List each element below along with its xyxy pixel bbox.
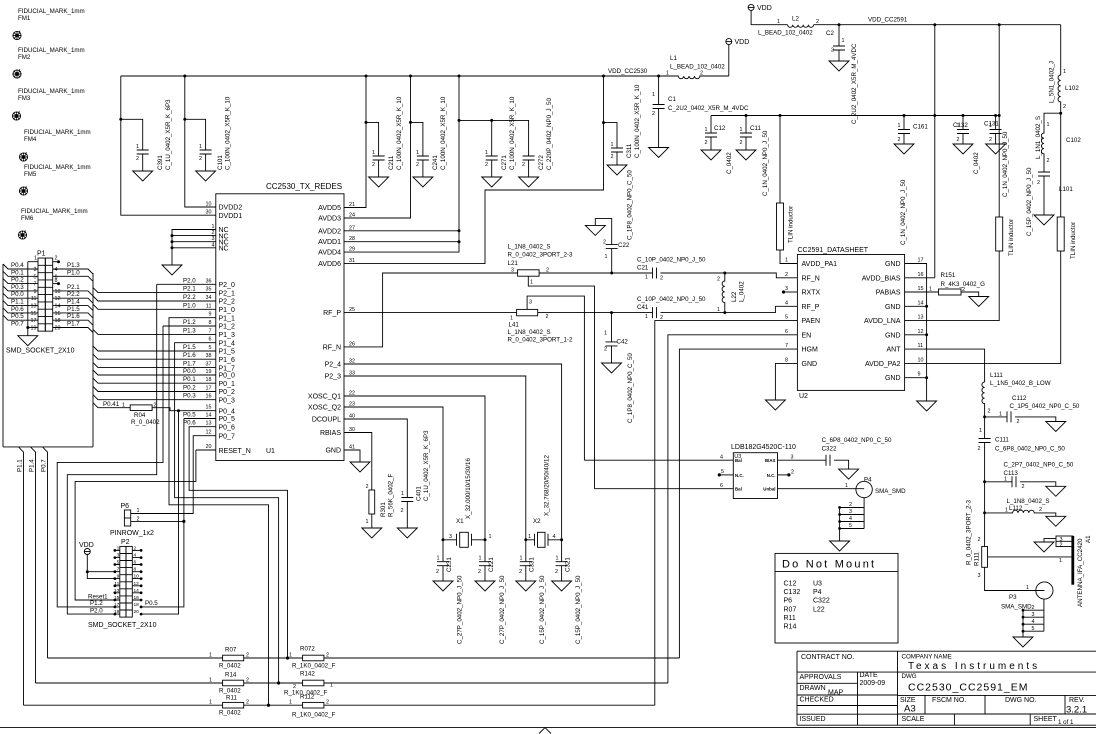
svg-text:C_15P_0402_NP0_J_50: C_15P_0402_NP0_J_50: [575, 575, 582, 644]
svg-text:P0.2: P0.2: [11, 277, 24, 284]
svg-text:P0_4: P0_4: [219, 408, 235, 415]
wire P1 pin9 P0.3: [3, 286, 38, 291]
wire P1 pin16 P1.5: [53, 313, 93, 318]
svg-text:18: 18: [55, 318, 61, 324]
svg-text:P2: P2: [121, 539, 130, 546]
svg-text:C321: C321: [565, 557, 572, 572]
ground C221: [475, 581, 495, 591]
svg-text:L22: L22: [731, 291, 738, 302]
svg-text:2: 2: [137, 516, 140, 522]
ground C241: [413, 177, 433, 187]
svg-text:2: 2: [326, 653, 329, 659]
svg-text:7: 7: [209, 328, 212, 334]
svg-text:P1_3: P1_3: [219, 332, 235, 339]
svg-text:C101: C101: [217, 155, 224, 170]
svg-text:FIDUCIAL_MARK_1mm: FIDUCIAL_MARK_1mm: [24, 129, 91, 136]
svg-text:R301: R301: [380, 502, 387, 517]
ground C11: [736, 150, 756, 160]
svg-text:C_2U2_0402_X5R_M_4VDC: C_2U2_0402_X5R_M_4VDC: [668, 105, 749, 112]
svg-text:1: 1: [604, 331, 607, 337]
svg-text:P4: P4: [864, 477, 872, 484]
svg-text:REV.: REV.: [1069, 697, 1085, 704]
svg-text:1: 1: [136, 144, 139, 150]
svg-text:6: 6: [209, 337, 212, 343]
svg-text:L_1N8_0402_S: L_1N8_0402_S: [508, 329, 551, 336]
resistor R151: [939, 289, 962, 295]
svg-text:P0.7: P0.7: [11, 321, 24, 328]
resistor R142: [303, 680, 324, 686]
svg-text:P1.7: P1.7: [183, 361, 196, 368]
svg-text:U1: U1: [266, 448, 275, 455]
svg-text:2: 2: [134, 545, 137, 551]
ground P4: [830, 541, 850, 551]
svg-text:4: 4: [553, 534, 556, 540]
svg-text:20: 20: [206, 444, 212, 450]
svg-text:10: 10: [55, 289, 61, 295]
wire R111 to P3: [985, 567, 1045, 590]
svg-text:CC2530_TX_REDES: CC2530_TX_REDES: [266, 182, 342, 191]
svg-text:RF_P: RF_P: [802, 304, 820, 311]
svg-text:1: 1: [556, 556, 559, 562]
capacitor C11: [745, 114, 748, 117]
svg-text:C21: C21: [637, 265, 649, 272]
svg-text:17: 17: [918, 258, 924, 264]
wire rail left drop to DVDD1: [121, 76, 216, 215]
svg-text:P1_7: P1_7: [219, 365, 235, 372]
svg-text:R_0402: R_0402: [219, 688, 241, 695]
svg-text:2: 2: [246, 700, 249, 706]
svg-text:1: 1: [979, 428, 982, 434]
ground C391: [133, 171, 153, 181]
svg-text:L22: L22: [813, 606, 825, 613]
svg-text:21: 21: [349, 202, 355, 208]
svg-text:P0.41: P0.41: [103, 401, 120, 408]
wire P1 pin11 P0.0: [3, 293, 38, 298]
wire P1 pin10 P2.1: [53, 291, 93, 296]
svg-text:C391: C391: [157, 155, 164, 170]
svg-text:A3: A3: [904, 704, 916, 715]
svg-text:P0.1: P0.1: [183, 376, 196, 383]
svg-text:3: 3: [849, 509, 852, 515]
fiducial FM6: [18, 230, 26, 239]
wire RF_P from U1 through L41: [344, 312, 517, 314]
svg-text:C22: C22: [618, 242, 630, 249]
svg-text:Texas Instruments: Texas Instruments: [908, 661, 1040, 672]
svg-text:1: 1: [740, 127, 743, 133]
svg-text:FSCM NO.: FSCM NO.: [932, 697, 966, 704]
bus entry U1 P1_5: [93, 346, 216, 351]
ground R151: [969, 297, 989, 307]
svg-text:R151: R151: [941, 272, 956, 279]
svg-text:2: 2: [957, 137, 960, 143]
svg-text:C161: C161: [913, 124, 928, 131]
title block frame: [797, 651, 1096, 725]
resistor R111: [984, 513, 986, 547]
svg-text:P1.4: P1.4: [67, 299, 80, 306]
capacitor C112: [985, 416, 1007, 418]
capacitor C21: [653, 268, 657, 279]
svg-text:2009-09: 2009-09: [860, 680, 886, 687]
svg-text:U3: U3: [813, 580, 822, 587]
svg-text:6: 6: [785, 329, 788, 335]
svg-text:P2_0: P2_0: [219, 282, 235, 289]
svg-text:1: 1: [898, 123, 901, 129]
svg-text:C231: C231: [446, 557, 453, 572]
svg-text:P1.0: P1.0: [183, 302, 196, 309]
svg-text:L111: L111: [990, 372, 1003, 379]
svg-text:P2_2: P2_2: [219, 299, 235, 306]
svg-text:2: 2: [246, 653, 249, 659]
svg-text:4: 4: [785, 300, 788, 306]
svg-text:37: 37: [206, 362, 212, 368]
wire P1 pin13 P1.1: [3, 301, 38, 306]
svg-text:GND: GND: [802, 361, 818, 368]
svg-text:N.C.: N.C.: [735, 473, 744, 478]
antenna A1 pin box: [1056, 536, 1073, 547]
capacitor C231: [442, 540, 444, 562]
capacitor C12: [710, 116, 712, 134]
connector P1 SMD_SOCKET_2X10 body: [38, 258, 45, 331]
svg-text:19: 19: [206, 369, 212, 375]
svg-text:3: 3: [785, 286, 788, 292]
svg-text:1: 1: [289, 653, 292, 659]
svg-text:N.C.: N.C.: [767, 473, 776, 478]
svg-text:Unbal: Unbal: [763, 487, 775, 492]
svg-text:1: 1: [209, 678, 212, 684]
svg-text:3: 3: [529, 300, 532, 306]
svg-text:GND: GND: [885, 261, 901, 268]
svg-text:10: 10: [206, 202, 212, 208]
inductor L101 branch: [1041, 113, 1060, 172]
wire U1 P0_6 to row1: [189, 427, 287, 658]
svg-text:4: 4: [720, 455, 723, 461]
ground C272: [519, 177, 539, 187]
svg-text:2: 2: [199, 156, 202, 162]
svg-text:P3: P3: [1009, 594, 1017, 601]
pin NC group wires: [172, 230, 216, 266]
svg-text:L41: L41: [509, 321, 520, 328]
svg-text:C271: C271: [501, 155, 508, 170]
svg-text:2: 2: [705, 140, 708, 146]
ground P3: [1013, 637, 1033, 647]
svg-text:BIAS: BIAS: [765, 458, 776, 463]
ground C101: [196, 171, 216, 181]
svg-text:C112: C112: [1012, 395, 1027, 402]
svg-text:C41: C41: [637, 304, 649, 311]
svg-text:P0.3: P0.3: [183, 393, 196, 400]
svg-text:P1.5: P1.5: [183, 344, 196, 351]
svg-text:1: 1: [1063, 69, 1066, 75]
fiducial FM1: [13, 31, 21, 40]
svg-text:2: 2: [740, 140, 743, 146]
svg-text:P0_5: P0_5: [219, 416, 235, 423]
resistor R14: [223, 680, 244, 686]
svg-text:P1.1: P1.1: [17, 459, 24, 472]
node R04 out: [177, 409, 180, 412]
svg-text:R_1K0_0402_F: R_1K0_0402_F: [292, 663, 336, 670]
svg-text:R07: R07: [784, 606, 797, 613]
svg-text:R_0_0402: R_0_0402: [131, 419, 160, 426]
fiducial FM5: [19, 186, 27, 195]
svg-text:2: 2: [978, 446, 981, 452]
capacitor C311: [611, 148, 623, 152]
ground A1: [1034, 542, 1054, 552]
bus entry U1 P1_0: [93, 304, 216, 309]
wire P1 pin20 P1.7: [53, 328, 93, 333]
svg-text:P6: P6: [121, 503, 130, 510]
svg-text:7: 7: [34, 282, 37, 288]
svg-text:8: 8: [55, 278, 58, 284]
svg-text:ANTENNA_IFA_CC2420: ANTENNA_IFA_CC2420: [1077, 538, 1084, 607]
ground NC pins: [162, 265, 182, 275]
svg-text:P0.2: P0.2: [183, 385, 196, 392]
svg-text:2: 2: [485, 162, 488, 168]
svg-text:1: 1: [137, 508, 140, 514]
capacitor C221: [484, 540, 486, 562]
svg-text:C_6P8_0402_NP0_C_50: C_6P8_0402_NP0_C_50: [822, 437, 892, 444]
wire L41 top stub to balun: [527, 296, 584, 460]
svg-text:C_100N_0402_X5R_K_10: C_100N_0402_X5R_K_10: [440, 96, 447, 170]
svg-text:4: 4: [1032, 619, 1035, 625]
svg-text:1 of 1: 1 of 1: [1058, 719, 1074, 726]
svg-text:2: 2: [1047, 158, 1050, 164]
capacitor C321: [561, 540, 563, 562]
wire EN: [668, 335, 798, 683]
svg-text:11: 11: [31, 296, 37, 302]
svg-text:1: 1: [117, 545, 120, 551]
svg-text:C_100N_0402_X5R_K_10: C_100N_0402_X5R_K_10: [225, 96, 232, 170]
svg-text:CONTRACT NO.: CONTRACT NO.: [801, 654, 854, 661]
wire VDD to L2: [751, 10, 788, 24]
svg-text:RF_N: RF_N: [323, 344, 341, 351]
inductor L41 (0-ohm 3port): [517, 309, 538, 315]
node rail-DVDD2: [183, 75, 186, 78]
inductor L22: [723, 272, 726, 275]
wire RF_N from U1 to L21 line: [344, 273, 518, 347]
fiducial FM2: [13, 69, 21, 78]
svg-text:P0.7: P0.7: [41, 459, 48, 472]
connector P6 PINROW_1x2 body: [124, 510, 130, 526]
svg-text:SHEET: SHEET: [1034, 716, 1058, 723]
pin balun 5 N.C. stub: [719, 474, 733, 476]
svg-text:2: 2: [831, 48, 834, 54]
ground C321: [552, 581, 572, 591]
svg-text:C_1P8_0402_NP0_C_50: C_1P8_0402_NP0_C_50: [627, 170, 634, 240]
wire PAEN: [655, 321, 798, 706]
svg-text:C12: C12: [714, 125, 726, 132]
svg-text:2: 2: [652, 111, 655, 117]
svg-text:P2.2: P2.2: [67, 291, 80, 298]
svg-text:SMA_SMD: SMA_SMD: [875, 488, 906, 495]
svg-text:NC: NC: [219, 246, 229, 253]
svg-text:P1.3: P1.3: [183, 327, 196, 334]
svg-text:SCALE: SCALE: [902, 716, 925, 723]
svg-text:C331: C331: [529, 557, 536, 572]
svg-text:L_1N8_0402_S: L_1N8_0402_S: [508, 243, 551, 250]
svg-text:2: 2: [791, 469, 794, 475]
svg-text:2: 2: [519, 569, 522, 575]
svg-text:2: 2: [55, 256, 58, 262]
wire antenna gnd pins: [1044, 539, 1056, 542]
svg-text:P0.5: P0.5: [145, 600, 158, 607]
inductor TLIN2: [998, 25, 1000, 217]
svg-text:XOSC_Q1: XOSC_Q1: [308, 394, 341, 401]
wire P1 pin14 P1.4: [53, 306, 93, 311]
svg-text:1: 1: [489, 534, 492, 540]
svg-text:C322: C322: [813, 598, 830, 605]
node C391 stub: [119, 118, 122, 121]
svg-text:1: 1: [605, 254, 608, 260]
IC U2 CC2591 outline: [797, 255, 904, 391]
svg-text:3: 3: [34, 267, 37, 273]
svg-text:2: 2: [522, 162, 525, 168]
svg-text:RXTX: RXTX: [802, 290, 821, 297]
svg-text:L_1N1_0402_S: L_1N1_0402_S: [1035, 116, 1042, 159]
power VDD symbol 1: [728, 45, 730, 76]
bus entry U1 P2_2: [93, 296, 216, 301]
wire AVDD_BIAS: [905, 277, 935, 279]
svg-text:17: 17: [206, 386, 212, 392]
svg-text:15: 15: [918, 286, 924, 292]
bus exit P1.4: [31, 447, 36, 683]
svg-text:P0_6: P0_6: [219, 424, 235, 431]
svg-text:FM5: FM5: [24, 171, 37, 178]
wire AVDD3 vertical: [344, 76, 411, 218]
node P6 pin2 junction: [182, 520, 185, 523]
svg-text:GND: GND: [885, 332, 901, 339]
svg-text:C211: C211: [388, 155, 395, 170]
inductor TLIN3: [1060, 113, 1062, 217]
svg-text:5: 5: [1032, 626, 1035, 632]
svg-text:13: 13: [206, 421, 212, 427]
svg-text:1: 1: [530, 280, 533, 286]
resistor R301: [369, 490, 375, 514]
svg-text:2: 2: [136, 156, 139, 162]
bus entry R04: [93, 403, 130, 408]
svg-text:2: 2: [212, 230, 215, 236]
svg-text:1: 1: [479, 556, 482, 562]
svg-text:8: 8: [785, 357, 788, 363]
svg-text:6: 6: [720, 483, 723, 489]
svg-text:P0.0: P0.0: [183, 368, 196, 375]
svg-text:10: 10: [134, 574, 140, 580]
svg-text:P2.0: P2.0: [183, 277, 196, 284]
svg-text:R_0_0402_3PORT_2-3: R_0_0402_3PORT_2-3: [508, 252, 573, 259]
svg-text:ANT: ANT: [887, 347, 902, 354]
wire ANT to L111: [905, 349, 985, 382]
connector P4 SMA: [856, 481, 872, 497]
svg-text:TLIN inductor: TLIN inductor: [1070, 222, 1077, 259]
svg-text:1: 1: [528, 534, 531, 540]
ground C271: [482, 177, 502, 187]
svg-text:18: 18: [206, 377, 212, 383]
svg-text:C_2P7_0402_NP0_C_50: C_2P7_0402_NP0_C_50: [1004, 462, 1074, 469]
wire L21 pin1 stub to balun: [528, 276, 594, 489]
wire L41 to C41: [538, 312, 652, 314]
svg-text:GND: GND: [325, 448, 341, 455]
svg-text:1: 1: [611, 142, 614, 148]
svg-text:FM4: FM4: [24, 136, 37, 143]
svg-text:13: 13: [114, 588, 120, 594]
svg-text:P1.3: P1.3: [67, 262, 80, 269]
svg-text:CHECKED: CHECKED: [800, 697, 834, 704]
svg-text:C12: C12: [784, 580, 797, 587]
svg-text:C_15P_0402_NP0_J_50: C_15P_0402_NP0_J_50: [1026, 167, 1033, 236]
bus exit P0.7: [43, 447, 48, 658]
svg-text:C_0402: C_0402: [726, 152, 733, 174]
wire U1 P1_4 to row2: [175, 343, 279, 683]
capacitor C271: [486, 156, 498, 160]
svg-text:Do Not Mount: Do Not Mount: [782, 559, 876, 571]
svg-text:FIDUCIAL_MARK_1mm: FIDUCIAL_MARK_1mm: [18, 88, 85, 95]
svg-text:EN: EN: [802, 332, 812, 339]
svg-text:PINROW_1x2: PINROW_1x2: [110, 530, 154, 537]
svg-text:9: 9: [918, 372, 921, 378]
svg-text:AVDD1: AVDD1: [318, 239, 341, 246]
svg-text:Bal: Bal: [735, 487, 742, 492]
wire C311 stub: [604, 123, 618, 148]
capacitor C1: [658, 76, 660, 105]
svg-text:C1: C1: [668, 96, 676, 103]
svg-text:L_5N1_0402_J: L_5N1_0402_J: [1049, 61, 1056, 103]
inductor L112: [985, 482, 1056, 517]
svg-text:2: 2: [898, 137, 901, 143]
svg-text:9: 9: [117, 574, 120, 580]
ground C1: [649, 148, 669, 158]
svg-text:C_10P_0402_NP0_J_50: C_10P_0402_NP0_J_50: [637, 296, 706, 303]
svg-text:2: 2: [555, 569, 558, 575]
svg-text:P0.3: P0.3: [11, 284, 24, 291]
ground C231: [433, 581, 453, 591]
svg-text:RF_N: RF_N: [802, 275, 820, 282]
svg-text:C_100N_0402_X5R_K_10: C_100N_0402_X5R_K_10: [396, 96, 403, 170]
svg-text:2: 2: [603, 240, 606, 246]
svg-text:C132: C132: [953, 122, 968, 129]
svg-text:5: 5: [721, 469, 724, 475]
ground U1 pin41: [350, 462, 370, 472]
svg-text:P0.5: P0.5: [11, 313, 24, 320]
wire P1 pin6 P1.0: [53, 276, 93, 281]
svg-text:1: 1: [645, 314, 648, 320]
wire P1 pin18 P1.6: [53, 320, 93, 325]
svg-text:5: 5: [117, 560, 120, 566]
wire C21 to U2 RF_N: [661, 273, 798, 278]
pin numbers P2: [114, 545, 139, 615]
ground C211: [369, 177, 389, 187]
svg-text:1: 1: [1026, 585, 1029, 591]
svg-text:L_0402: L_0402: [739, 281, 746, 302]
svg-text:X1: X1: [456, 518, 464, 525]
svg-text:11: 11: [918, 343, 924, 349]
svg-text:R112: R112: [300, 694, 315, 701]
wire XOSC_Q1: [344, 396, 485, 540]
wire P1 pin5 P0.1: [3, 271, 38, 276]
svg-text:1: 1: [845, 483, 848, 489]
capacitor C211: [373, 156, 385, 160]
svg-text:P1.2: P1.2: [183, 319, 196, 326]
node C311 stub: [602, 121, 605, 124]
svg-text:36: 36: [206, 278, 212, 284]
crystal X1: [442, 538, 445, 541]
pin RXTX stub: [784, 291, 798, 293]
svg-text:1: 1: [416, 150, 419, 156]
svg-text:C_1U_0402_X5R_K_6P3: C_1U_0402_X5R_K_6P3: [165, 99, 172, 170]
svg-text:1: 1: [842, 38, 845, 44]
svg-text:P0.6: P0.6: [183, 420, 196, 427]
wire C271/C272 stub: [459, 120, 529, 156]
capacitor C131: [994, 114, 997, 117]
svg-text:C_100N_0402_X5R_K_10: C_100N_0402_X5R_K_10: [509, 96, 516, 170]
